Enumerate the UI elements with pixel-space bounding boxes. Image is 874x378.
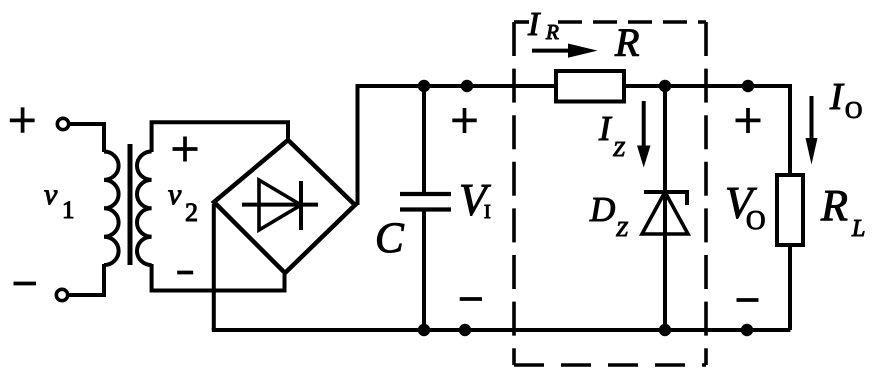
svg-text:I: I (527, 6, 541, 43)
minus sign (input -) (14, 282, 37, 286)
svg-text:I: I (484, 201, 491, 223)
svg-text:O: O (746, 205, 766, 235)
transformer T1 core (128, 144, 133, 265)
wire secondary bottom to bridge bottom vertex (152, 264, 285, 291)
svg-text:R: R (614, 20, 639, 65)
minus sign (VO -) (737, 298, 759, 302)
junction dot bottom rail at zener (659, 324, 671, 336)
minus sign (v2 -) (177, 271, 193, 275)
capacitor C bottom lead (422, 211, 426, 331)
svg-text:v: v (44, 178, 58, 211)
wire secondary top to bridge top vertex (152, 122, 288, 152)
transformer T1 secondary winding (137, 152, 152, 266)
arrow IZ (642, 101, 646, 147)
svg-text:D: D (589, 190, 615, 229)
plus sign (input +) (10, 107, 35, 132)
wire top rail to RL (788, 84, 792, 176)
input terminal (bottom) (56, 289, 67, 300)
resistor RL (777, 175, 803, 245)
wire bridge left vertex to bottom rail (212, 204, 216, 330)
junction dot bottom rail at capacitor (418, 324, 430, 336)
junction dot top rail at output (742, 80, 754, 92)
resistor R (556, 71, 624, 102)
zener branch wire (663, 86, 667, 330)
input terminal (top) (57, 118, 68, 129)
dashed regulator box top edge (514, 20, 529, 24)
svg-text:v: v (168, 178, 182, 211)
dashed regulator box right edge (704, 22, 708, 365)
wire bridge right vertex to top rail (356, 86, 360, 205)
zener diode DZ cathode bar (644, 192, 687, 205)
wire bottom input to primary (69, 264, 104, 295)
wire top input to primary (70, 124, 104, 152)
junction dot top rail at capacitor (418, 80, 430, 92)
svg-text:I: I (829, 76, 845, 118)
junction dot bottom rail at output (741, 324, 753, 336)
capacitor C plates (400, 194, 451, 210)
bridge diode symbol: lead line (242, 203, 318, 207)
bridge diode symbol: triangle (259, 180, 301, 230)
transformer T1 primary winding (104, 152, 119, 266)
junction dot top rail at VI (461, 80, 473, 92)
dashed regulator box bottom edge (514, 363, 706, 367)
svg-text:O: O (845, 98, 862, 124)
svg-text:2: 2 (185, 198, 198, 227)
junction dot top rail at zener (659, 80, 671, 92)
arrow IR (532, 49, 570, 53)
plus sign (v2 +) (173, 137, 198, 162)
capacitor C top lead (422, 86, 426, 193)
bottom rail wire (212, 328, 791, 332)
wire RL to bottom rail (788, 245, 792, 330)
minus sign (VI -) (460, 297, 482, 301)
svg-text:R: R (545, 20, 559, 44)
bridge diode symbol: cathode bar (299, 181, 303, 230)
dashed regulator box left edge (512, 22, 516, 365)
arrow IO (810, 96, 814, 140)
svg-text:Z: Z (616, 217, 628, 241)
svg-text:R: R (820, 181, 848, 230)
top rail wire (356, 84, 791, 88)
plus sign (VI +) (452, 108, 476, 133)
junction dot bottom rail at VI (459, 324, 471, 336)
svg-text:Z: Z (613, 137, 625, 161)
plus sign (VO +) (736, 108, 761, 133)
zener diode DZ triangle (642, 192, 688, 234)
bridge rectifier diamond (214, 140, 355, 273)
svg-text:L: L (851, 216, 865, 242)
svg-text:1: 1 (62, 197, 75, 224)
svg-text:C: C (375, 215, 405, 262)
